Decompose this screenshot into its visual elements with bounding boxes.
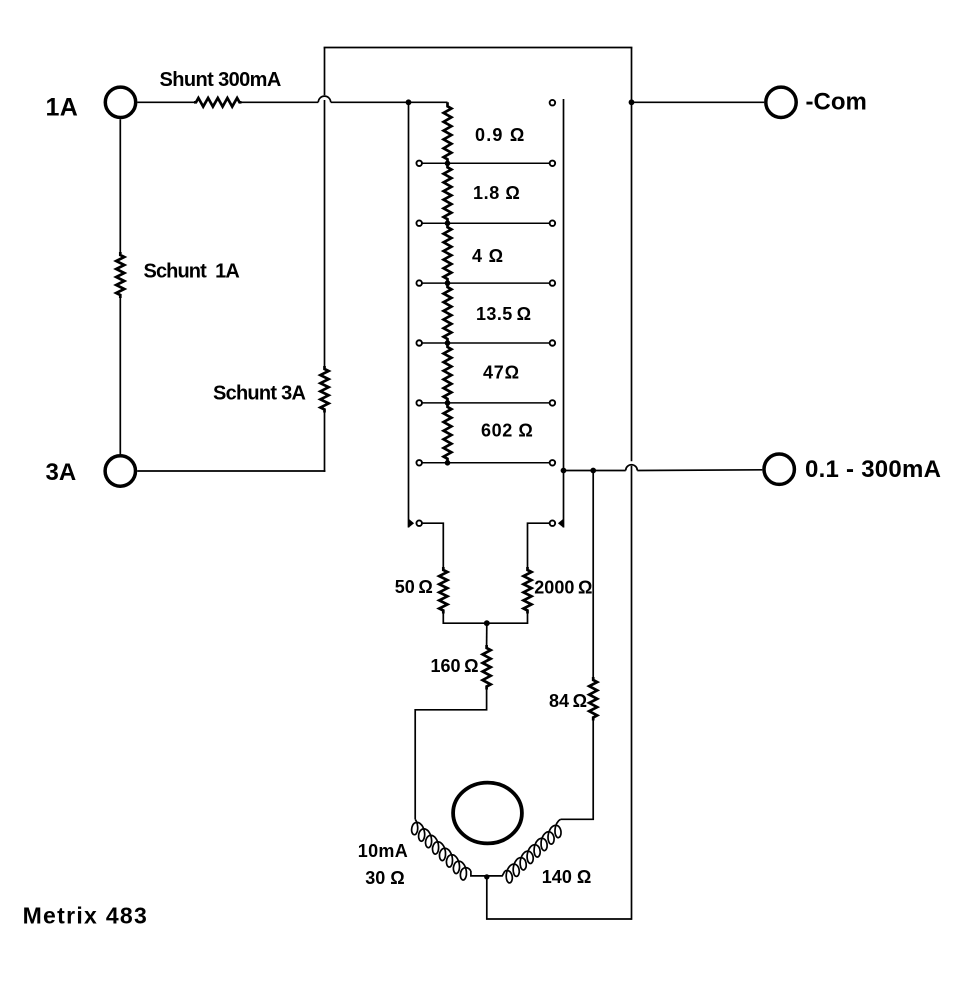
wire 50 ohm to junction [443,614,487,624]
terminal 0.1-300mA [764,454,794,484]
wiper arrow right [558,519,564,528]
resistor 84 ohm [589,677,597,721]
svg-text:4 Ω: 4 Ω [472,246,504,266]
junction at left rail [406,99,412,105]
label 47 ohm [483,363,520,383]
contact tap 3 right [550,280,556,286]
svg-text:602 Ω: 602 Ω [481,421,533,441]
resistor 160 ohm [483,645,491,690]
contact tap 1 right [550,161,556,167]
wire junction to coil right [487,871,505,876]
label -Com [806,89,867,116]
label 160 ohm [431,656,479,676]
wire hop to mA terminal [637,469,762,472]
terminal 3A [105,456,135,486]
wire shunt to hop [242,101,319,103]
svg-text:13.5 Ω: 13.5 Ω [476,304,531,324]
contact wiper right [550,520,556,526]
resistor 2000 ohm [524,567,532,614]
wire mA junction to 84 ohm [592,471,594,678]
resistor 602 ohm [444,403,452,463]
wire box top [324,47,633,49]
svg-text:140 Ω: 140 Ω [542,867,591,887]
contact tap 2 right [550,220,556,226]
contact tap 1 left [416,161,422,167]
contact tap 5 left [416,400,422,406]
label 50 ohm [395,577,433,597]
wire meter to bottom [487,877,632,919]
wire junction to 160 ohm [486,623,488,645]
wire -Com junction to terminal [632,101,765,103]
resistor 13.5 ohm [444,283,452,343]
contact wiper left [416,520,422,526]
resistor 0.9 ohm [444,102,452,163]
wire tap row 1 [422,162,549,164]
junction meter bottom [484,874,489,879]
label 4 ohm [472,246,504,266]
wire box left upper [324,48,326,96]
wire box right upper [631,48,633,462]
wire tap row 4 [422,342,549,344]
contact tap 4 left [416,340,422,346]
svg-text:Schunt 3A: Schunt 3A [213,383,305,405]
label Schunt 3A [213,383,305,405]
junction tap 1 [445,161,451,167]
coil 30 ohm [412,819,471,880]
svg-text:10mA: 10mA [358,841,408,861]
label Shunt 300mA [160,69,281,91]
label 30 ohm [365,868,404,888]
terminal -Com [766,87,796,117]
svg-text:50 Ω: 50 Ω [395,577,433,597]
contact tap 6 left [416,460,422,466]
wire hop to chain top [331,101,448,103]
svg-text:0.1 - 300mA: 0.1 - 300mA [805,456,941,483]
wiper arrow left [409,519,415,528]
label 602 ohm [481,421,533,441]
contact tap 4 right [550,340,556,346]
resistor 4 ohm [444,223,452,283]
svg-text:Schunt 1A: Schunt 1A [144,261,240,283]
contact tap 2 left [416,220,422,226]
resistor 50 ohm [439,567,447,614]
svg-text:3A: 3A [46,459,77,486]
contact top right [550,100,556,106]
wire 3A to box left [137,470,325,472]
svg-text:Shunt 300mA: Shunt 300mA [160,69,281,91]
wire 84 branch to hop [593,470,626,472]
label 0.9 ohm [475,125,525,145]
wire 1A to Schunt 1A [119,119,121,252]
svg-text:2000 Ω: 2000 Ω [534,578,592,598]
label 1.8 ohm [473,183,520,203]
label 84 ohm [549,691,587,711]
junction tap 3 [445,280,451,286]
hop over box right [626,465,638,471]
wire tap row 2 [422,222,549,224]
wire coil left to junction [471,871,487,876]
wire box right lower [631,466,633,920]
svg-text:160 Ω: 160 Ω [431,656,479,676]
resistor Schunt 3A [320,366,328,413]
label 140 ohm [542,867,591,887]
junction 84 branch [590,468,596,474]
junction tap 4 [445,340,451,346]
label 10mA [358,841,408,861]
wire box left lower [324,100,326,366]
svg-text:-Com: -Com [806,89,867,116]
wire 2000 ohm to junction [487,614,528,624]
junction right rail at mA wire [561,468,567,474]
svg-text:1.8 Ω: 1.8 Ω [473,183,520,203]
wire tap row 6 [422,462,549,464]
wire 160 ohm to coil left [415,690,486,820]
wire right rail to 84 branch [564,470,594,472]
label 1A [46,94,79,122]
label 2000 ohm [534,578,592,598]
wire Schunt 1A to 3A [119,298,121,454]
svg-text:0.9 Ω: 0.9 Ω [475,125,525,145]
label 0.1 - 300mA [805,456,941,483]
meter movement [453,783,522,844]
resistor 1.8 ohm [444,163,452,223]
label Metrix 483 [23,902,149,928]
terminal 1A [105,87,135,117]
junction 50-2000-160 [484,620,490,626]
svg-text:30 Ω: 30 Ω [365,868,404,888]
coil 140 ohm [505,819,561,883]
svg-text:Metrix 483: Metrix 483 [23,902,149,928]
wire tap row 5 [422,402,549,404]
wire left rail [408,102,410,527]
resistor 47 ohm [444,343,452,403]
svg-text:1A: 1A [46,94,79,122]
svg-text:47Ω: 47Ω [483,363,520,383]
wire 84 ohm to coil right [561,721,594,820]
junction tap 6 [445,460,451,466]
wire wiper to 50 ohm [423,523,444,567]
resistor Schunt 1A [116,252,124,298]
junction tap 5 [445,400,451,406]
label 3A [46,459,77,486]
junction at -Com [629,99,635,105]
hop over box left [318,96,330,102]
junction tap 2 [445,220,451,226]
contact tap 5 right [550,400,556,406]
wire 1A to shunt [137,101,194,103]
wire tap row 3 [422,282,549,284]
wire right rail [563,99,565,528]
svg-text:84 Ω: 84 Ω [549,691,587,711]
contact tap 3 left [416,280,422,286]
wire wiper to 2000 ohm [528,523,550,567]
wire Schunt 3A to 3A wire [324,413,326,472]
label 13.5 ohm [476,304,531,324]
label Schunt 1A [144,261,240,283]
contact tap 6 right [550,460,556,466]
resistor Shunt 300mA [194,98,242,107]
